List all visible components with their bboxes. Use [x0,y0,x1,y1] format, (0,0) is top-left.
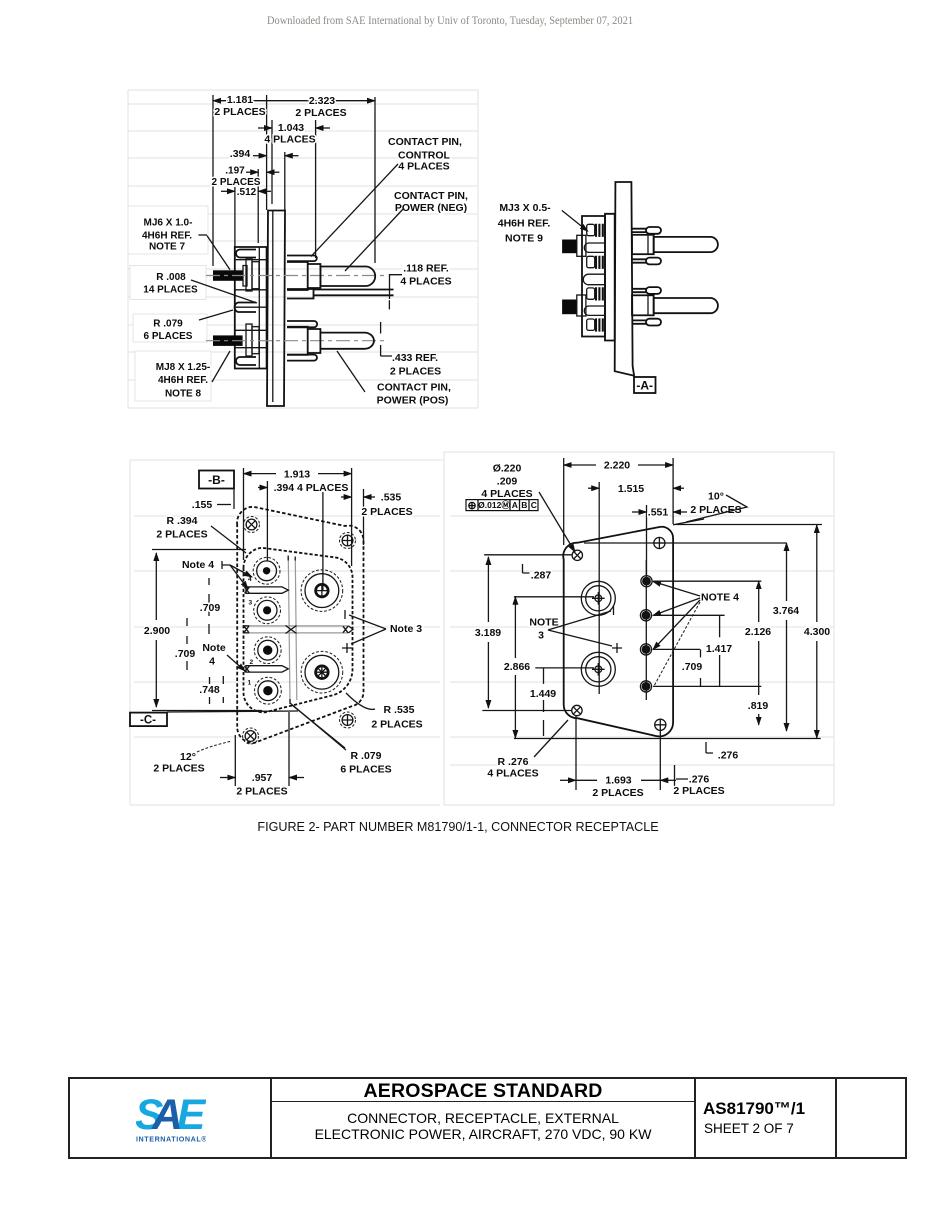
label .287 [523,564,552,582]
control pin tab top [287,256,317,262]
dim 1.515 [588,482,684,496]
svg-text:4H6H REF.: 4H6H REF. [158,375,208,386]
svg-text:INTERNATIONAL®: INTERNATIONAL® [136,1135,206,1143]
label MJ8 X 1.25- 4H6H REF. NOTE 8 [156,351,230,400]
svg-text:3.189: 3.189 [475,627,501,639]
label R .079 6 PLACES [290,703,392,776]
svg-text:MJ6 X 1.0-: MJ6 X 1.0- [144,218,193,229]
label .155 [192,499,231,511]
screw TL [572,550,582,560]
svg-text:14 PLACES: 14 PLACES [143,285,198,296]
svg-text:3: 3 [538,630,544,642]
label CONTACT PIN POWER (NEG) [345,190,468,271]
note3 minus mark [344,610,346,619]
label white boxes [128,206,211,401]
contact pin power pos root [287,327,308,355]
svg-text:.276: .276 [718,750,739,762]
svg-text:4H6H REF.: 4H6H REF. [498,218,551,230]
dim 2.866 [504,597,530,738]
extension -C- to face [167,711,298,712]
dim .709 top [200,578,221,634]
label 10deg 2 PLACES [673,491,747,525]
note3 marks [612,606,622,653]
face channel vertical [288,558,297,703]
extension line left x243.5 [243,468,245,560]
svg-text:NOTE 4: NOTE 4 [701,592,739,604]
svg-text:MJ8 X 1.25-: MJ8 X 1.25- [156,362,210,373]
contact pin power neg base [308,264,321,288]
label .276 2 PLACES [673,765,724,797]
svg-text:1.417: 1.417 [706,643,732,655]
header download notice [59,13,842,28]
rear flange outline [563,527,673,737]
dot column line [645,560,647,700]
extension line left [212,95,214,266]
extension line x267.4 [266,481,268,561]
extension line x258 [257,169,259,243]
key slot 1 [245,587,289,594]
svg-text:.118 REF.: .118 REF. [403,263,449,275]
dimension .512 [221,187,271,198]
faint scan artifact grid, top-left region [128,90,834,805]
control pin 4 [248,677,282,704]
datum box -C- [130,713,167,727]
svg-text:.276: .276 [689,774,710,786]
svg-text:NOTE 8: NOTE 8 [165,389,202,400]
key slot 2 [245,666,289,673]
power socket bottom [581,652,615,686]
prongs above pin2 [632,289,646,292]
svg-text:2 PLACES: 2 PLACES [673,785,724,797]
dimension .394 4 PLACES [258,482,348,494]
insulator body [235,247,267,369]
power pin 2 base [632,295,654,315]
control pin 3 [250,637,282,666]
svg-text:Ø.012Ⓜ: Ø.012Ⓜ [478,500,510,510]
svg-text:2 PLACES: 2 PLACES [371,719,422,731]
svg-text:1.913: 1.913 [284,469,310,481]
dimension 1.913 [244,467,352,481]
document number [703,1099,805,1119]
svg-text:.709: .709 [175,648,196,660]
svg-text:R .276: R .276 [498,756,529,768]
extension line top screws [484,525,822,555]
svg-text:R .008: R .008 [156,272,186,283]
mounting plate [267,211,285,407]
svg-text:MJ3 X 0.5-: MJ3 X 0.5- [499,202,551,214]
contact pin power neg cylinder [320,267,375,287]
control pin tab above pos [287,321,317,327]
svg-text:3: 3 [249,600,253,607]
svg-text:.394: .394 [230,148,251,160]
label dia .220 .209 4 PLACES [481,463,575,553]
dimension .197 [212,166,280,189]
extension line x363.5 [363,489,365,545]
svg-text:.709: .709 [682,661,703,673]
svg-text:6 PLACES: 6 PLACES [340,764,391,776]
svg-text:2 PLACES: 2 PLACES [295,107,346,119]
power pin top [301,570,343,612]
svg-text:B: B [521,500,527,510]
svg-text:-B-: -B- [208,473,225,487]
contact pin power pos cylinder [320,333,374,349]
svg-text:2 PLACES: 2 PLACES [592,787,643,799]
extension to socket top [514,597,594,668]
dim 2.126 / .819 [745,581,771,725]
svg-text:.535: .535 [381,492,402,504]
flange mid plate [605,214,615,341]
svg-text:.819: .819 [748,700,769,712]
extension line plate-right [284,152,286,211]
sheet number [704,1121,794,1136]
svg-text:.551: .551 [648,507,669,519]
centerline bottom pin [206,340,385,342]
extension line x234.9 [234,187,236,250]
power pin 1 base [632,235,654,254]
dim 2.900 [144,550,262,711]
SAE logo [136,1096,206,1142]
svg-text:.957: .957 [252,772,273,784]
svg-text:A: A [151,1096,183,1139]
prongs below pin1 [632,259,646,262]
leader from face bottom to 12deg [292,705,345,748]
svg-text:R .535: R .535 [384,704,415,716]
control pin lower tab [287,289,314,299]
dim .957 [220,712,304,798]
power pin 1 cylinder [654,237,718,252]
screw BR [340,712,356,728]
extension line x272 [271,120,273,204]
extension line x322.9 [322,492,324,591]
insulator body [582,216,605,337]
label .276 first [706,742,738,762]
control pin tab below pos [287,355,317,361]
svg-text:4H6H REF.: 4H6H REF. [142,231,192,242]
screw TR [340,533,356,549]
dim 1.417 [706,615,732,686]
contact pin power neg root [287,262,308,290]
dim 3.189 [475,557,501,708]
power pin bottom [301,651,343,693]
label NOTE 3 [529,611,612,646]
svg-text:2.220: 2.220 [604,460,630,472]
tongue ribs [583,243,605,315]
svg-text:4 PLACES: 4 PLACES [481,488,532,500]
screw BR [655,719,666,730]
svg-text:POWER (POS): POWER (POS) [377,395,449,407]
svg-text:.394 4 PLACES: .394 4 PLACES [274,482,349,494]
svg-text:Note 4: Note 4 [182,559,214,571]
document title [272,1110,694,1142]
screw BL [572,705,582,715]
svg-text:3.764: 3.764 [773,605,799,617]
svg-text:.709: .709 [200,602,221,614]
svg-text:.209: .209 [497,476,518,488]
title block table [68,1077,907,1159]
svg-text:Note: Note [202,642,225,654]
centerline top pin [206,275,385,277]
extension line bottom [482,711,820,739]
svg-text:12°: 12° [180,751,196,763]
svg-text:POWER (NEG): POWER (NEG) [395,202,467,214]
label R .008 14 PLACES [143,272,257,303]
inner face [243,548,352,713]
label .118 REF 4 PLACES with bracket [389,263,451,310]
dim 4.300 [804,525,830,738]
stud MJ6 (top, black) [213,259,259,291]
svg-text:2 PLACES: 2 PLACES [390,366,441,378]
plate [615,182,634,376]
screw TR [654,537,665,548]
svg-text:2.900: 2.900 [144,625,170,637]
dim 1.449 [530,668,556,736]
insert 2 [587,256,603,269]
screw TL [244,517,260,533]
stud MJ8 (bottom, black) [213,324,259,356]
figure caption [0,820,916,834]
svg-text:NOTE 9: NOTE 9 [505,233,543,245]
svg-text:2 PLACES: 2 PLACES [153,763,204,775]
svg-text:Note 3: Note 3 [390,623,422,635]
stud 1 black [562,235,586,256]
label CONTACT PIN POWER (POS) [337,351,451,407]
svg-text:R .079: R .079 [351,750,382,762]
label MJ6 X 1.0- 4H6H REF. NOTE 7 [142,218,230,270]
body rib top [236,250,256,258]
label R.276 4 PLACES [487,720,568,780]
svg-text:NOTE 7: NOTE 7 [149,242,186,253]
svg-text:4 PLACES: 4 PLACES [487,768,538,780]
dimension 2.323 label [295,95,346,119]
svg-text:.512: .512 [237,187,257,198]
svg-text:2 PLACES: 2 PLACES [236,786,287,798]
svg-text:R .079: R .079 [153,319,183,330]
GDT feature control frame [466,500,538,512]
label R .535 2 PLACES [346,693,423,731]
svg-text:1.693: 1.693 [605,775,631,787]
svg-text:-C-: -C- [140,715,156,727]
svg-text:2.126: 2.126 [745,626,771,638]
dim .709 second + Note 4 [175,618,196,670]
body flange line [258,247,260,369]
label 12deg 2 PLACES [153,741,232,775]
svg-text:1: 1 [248,680,252,687]
label R .394 2 PLACES [156,515,246,553]
svg-text:.433 REF.: .433 REF. [392,352,438,364]
insert 1 [587,224,603,237]
svg-text:2 PLACES: 2 PLACES [156,529,207,541]
control pin 1 [248,557,280,584]
control pin 2 [249,597,281,624]
svg-text:4 PLACES: 4 PLACES [398,161,449,173]
extension x599.2 [598,482,600,694]
label MJ3 X 0.5- 4H6H REF. NOTE 9 [498,202,588,245]
contact pin power pos base [308,329,321,353]
svg-text:-A-: -A- [636,379,653,393]
label Note 4 top [182,559,252,589]
svg-text:1.181: 1.181 [227,94,253,106]
screw BL [243,728,259,744]
extension line right [374,97,376,263]
extension line plate-left [266,95,268,210]
svg-text:10°: 10° [708,491,724,503]
svg-text:CONTACT PIN,: CONTACT PIN, [377,382,451,394]
dimension line 1.181 / 2.323 [213,100,267,102]
note3 plus mark [342,643,352,653]
svg-text:1.043: 1.043 [278,122,304,134]
label Note 3 [349,615,422,644]
svg-text:1.449: 1.449 [530,688,556,700]
body internal lines [235,260,267,348]
svg-text:4: 4 [209,656,215,668]
datum box -A- [634,377,656,393]
svg-text:.197: .197 [225,166,245,177]
key slot center [244,626,353,634]
svg-text:2.323: 2.323 [309,95,335,107]
dim 3.764 [773,543,799,731]
label CONTACT PIN CONTROL 4 PLACES [311,136,462,257]
svg-text:R .394: R .394 [167,515,198,527]
dim .709 rear [682,649,703,686]
svg-text:2 PLACES: 2 PLACES [361,506,412,518]
aerospace standard heading [272,1079,694,1102]
extension x646.5 [646,505,648,576]
dimension .535 2 PLACES [341,492,413,519]
dim .748 [199,676,223,704]
horizontal extensions for dots [653,581,761,686]
svg-text:CONTACT PIN,: CONTACT PIN, [394,190,468,202]
stud 2 black [562,295,586,316]
prongs below pin2 [632,320,646,323]
svg-text:NOTE: NOTE [529,617,558,629]
outer flange [237,507,363,743]
power socket top [581,581,615,615]
prongs above pin1 [632,229,646,232]
control pin wires [314,290,394,296]
label NOTE 4 with leaders [653,582,739,687]
svg-text:.155: .155 [192,499,213,511]
svg-text:1.515: 1.515 [618,483,644,495]
datum box -B- [199,471,234,510]
dimension 1.181 label [214,94,265,118]
svg-text:4 PLACES: 4 PLACES [264,134,315,146]
svg-text:2 PLACES: 2 PLACES [214,106,265,118]
insert 4 [587,318,603,331]
svg-text:C: C [531,500,537,510]
dim 2.220 [564,458,673,472]
svg-text:Ø.220: Ø.220 [493,463,522,475]
extension right x673.1 [672,458,674,524]
svg-text:CONTACT PIN,: CONTACT PIN, [388,136,462,148]
svg-text:4.300: 4.300 [804,626,830,638]
label .433 REF 2 PLACES with bracket [381,322,442,378]
insert 3 [587,287,603,300]
dim 1.693 [560,716,676,799]
svg-text:.748: .748 [199,684,220,696]
svg-text:2: 2 [250,659,254,666]
svg-text:.287: .287 [531,570,552,582]
body rib bottom [236,357,256,365]
svg-text:6 PLACES: 6 PLACES [144,331,193,342]
power pin 2 cylinder [654,298,718,313]
svg-text:4 PLACES: 4 PLACES [400,276,451,288]
svg-text:2.866: 2.866 [504,661,530,673]
contact dots [641,576,652,587]
label R .079 6 PLACES [144,310,233,342]
dim .551 [632,507,687,519]
extension line x351.6 [351,468,353,566]
body rib center [235,303,256,313]
dimension .394 [230,148,299,160]
svg-text:A: A [512,500,518,510]
svg-text:⊕: ⊕ [467,500,476,512]
extension left x563.7 [563,458,565,545]
extension line pin-base-right [315,120,317,258]
dimension 1.043 [258,122,330,146]
